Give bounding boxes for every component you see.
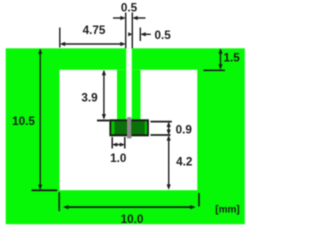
dim 1.0: left tick bbox=[111, 137, 113, 149]
dim 10.5: vertical arrow bbox=[38, 49, 42, 191]
dim 10.5: bottom tick bbox=[32, 189, 58, 191]
chip patch left dark pad bbox=[115, 121, 127, 134]
chip (gray) bbox=[127, 117, 131, 138]
dim 4.75: left tick bbox=[59, 28, 61, 48]
dim 0.9: bottom tick (patch bottom extension right) bbox=[151, 134, 171, 136]
chip patch outline bbox=[109, 119, 148, 136]
dim 0.5 slot: left arrow bbox=[113, 16, 126, 20]
dim 3.9: vertical arrow bbox=[102, 70, 106, 120]
svg-text:1.5: 1.5 bbox=[223, 52, 240, 65]
dim 10.0: left extension line bbox=[58, 192, 60, 211]
svg-text:0.9: 0.9 bbox=[176, 124, 193, 137]
chip patch right dark pad bbox=[131, 121, 144, 134]
dim 4.2: vertical arrow bbox=[167, 135, 171, 190]
dim 0.5 strip: right arrow with leader bbox=[140, 32, 151, 36]
dim 0.9: vertical arrow bbox=[167, 122, 171, 135]
dim 0.5 slot: right extension line bbox=[131, 13, 133, 49]
dim 0.5 slot: right arrow bbox=[132, 16, 145, 20]
svg-text:4.75: 4.75 bbox=[83, 24, 106, 37]
feed slot channel bbox=[126, 48, 132, 70]
dim 0.5 strip: left arrowhead bbox=[128, 32, 132, 36]
ground plane (green square) bbox=[6, 48, 245, 224]
right feed strip bbox=[132, 70, 141, 120]
chip patch left green end bbox=[111, 121, 114, 134]
svg-text:1.0: 1.0 bbox=[110, 152, 127, 165]
svg-text:10.5: 10.5 bbox=[12, 115, 35, 128]
dim 0.9: top tick (patch top extension right) bbox=[151, 121, 172, 123]
dim 4.75: line with outward heads bbox=[60, 42, 126, 46]
dim 3.9: tick (patch top extension left) bbox=[97, 120, 109, 122]
dim 10.0: line with outward heads bbox=[63, 205, 196, 209]
dim 1.0: arrow bbox=[112, 143, 125, 147]
dim 1.5: vertical arrow bbox=[218, 48, 222, 69]
svg-text:10.0: 10.0 bbox=[121, 213, 144, 226]
chip patch right green end bbox=[145, 121, 147, 134]
dim 10.0: right extension line bbox=[198, 193, 200, 207]
svg-text:0.5: 0.5 bbox=[155, 29, 172, 42]
svg-text:0.5: 0.5 bbox=[121, 2, 138, 15]
svg-text:3.9: 3.9 bbox=[81, 92, 98, 105]
slot aperture (white cutout) bbox=[60, 70, 198, 190]
left feed strip bbox=[117, 70, 126, 120]
dim 0.5 slot: left extension line bbox=[125, 13, 127, 49]
dim 1.5: tick (cutout top edge extension) bbox=[203, 69, 225, 71]
svg-text:4.2: 4.2 bbox=[176, 156, 193, 169]
dim 1.0: right tick bbox=[124, 137, 126, 149]
svg-text:[mm]: [mm] bbox=[215, 205, 239, 216]
dim 0.5 strip: tick at strip right edge bbox=[139, 28, 141, 42]
